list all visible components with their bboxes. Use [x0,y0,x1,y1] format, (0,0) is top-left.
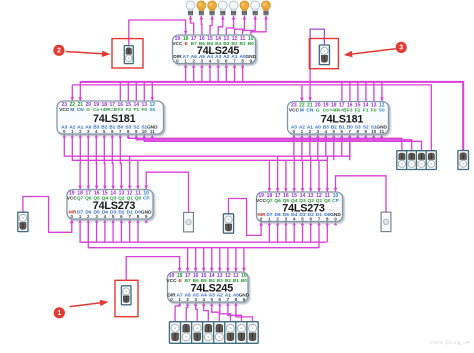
arrow into right181 bottom pin 9 [364,134,367,137]
lamp L4 (off) [218,1,227,15]
wire SW_L to left273 -MR [23,197,74,233]
svg-text:1: 1 [57,310,61,317]
wire left181 pin to left273 Q6 [87,134,91,189]
svg-text:VCC: VCC [172,41,183,47]
button CLK1 (left273 clock) [184,212,194,232]
arrow into left181 bottom pin 5 [103,134,106,137]
arrow into right273 bottom pin 1 [268,222,272,225]
wire right273 Q4 riser [292,156,296,192]
wire mid bus line A [64,134,350,156]
svg-text:11: 11 [379,129,384,134]
wire bus2 drop to left181 M pin22 [71,85,75,101]
wire SW3 loop lower to CN of right 181 [308,69,312,101]
svg-text:Q6: Q6 [85,195,92,201]
wire left181 pin to left273 Q3 [111,134,115,189]
wire bus to bottom245 B1 [234,248,238,272]
arrow into bottom245 A1 [226,303,230,306]
switch data D2 (down) [225,322,236,344]
arrow into bottom245 A7 [178,303,182,306]
wire right181 bottom pin 6 to mid bus [341,134,343,156]
svg-text:VCC: VCC [256,198,267,204]
wire right273 D pin 4 dropper [302,222,304,242]
arrow into right273 bottom pin 5 [301,222,305,225]
arrow into left273 bottom pin 3 [95,219,98,222]
wire bus to bottom245 B4 [210,248,214,272]
wire bus to right181 pin at 374 [373,81,375,101]
wire SW3 loop upper [310,29,324,69]
arrow into right273 bottom pin 0 [259,222,262,225]
wire right273 D pin 1 dropper [277,222,279,242]
arrow into right181 bottom pin 10 [372,134,375,137]
wire right273 D pin 2 dropper [285,222,287,242]
arrow into right181 bottom pin 7 [348,134,352,137]
svg-text:F0: F0 [371,107,377,113]
annotation red box 2 [112,39,143,68]
arrow into left181 bottom pin 10 [143,134,146,137]
wire bus1 drop to left181 CN pin21 [79,81,83,100]
switch bank S4 (up) [426,151,436,170]
arrow into left273 bottom pin 6 [120,219,123,222]
svg-text:Q6: Q6 [274,198,281,204]
arrow into left273 bottom pin 8 [136,219,140,222]
svg-text:M: M [70,107,74,113]
arrow into left273 bottom pin 4 [103,219,106,222]
wire right273 Q5 riser [284,160,288,192]
annotation arrow 3 [344,49,396,57]
wire bottom245 A0 to switch 8 [236,302,253,321]
wire bus to left181 pin at 144 [143,81,145,101]
arrow into bottom245 A6 [186,303,189,306]
wire A5 of top245 to bus [200,64,204,82]
wire bus1 drop to right181 S0 pin12 [380,81,384,101]
wire left181 pin to left273 Q2 [120,134,124,189]
svg-text:CSDN @Long_UP: CSDN @Long_UP [429,340,470,346]
wire A3 of top245 to bus [216,64,220,82]
arrow into left181 bottom pin 3 [87,134,90,137]
wire right181 S3 tap [357,134,359,138]
IC U5 74LS273 (right) [256,192,342,222]
wire lamp3 lead [218,16,224,36]
wire left273 D pin 0 dropper [87,219,89,242]
wire bus to right181 pin at 358 [357,81,359,101]
wire SW_M2 to right273 -MR [229,199,263,236]
svg-text:CP: CP [332,198,339,204]
wire right181 bottom pin 2 to mid bus [309,134,311,156]
switch bank S3 (up) [416,151,426,170]
wire left181 pin to left273 Q5 [95,134,99,189]
wire right273 Q2 riser [309,156,313,192]
switch SW3 (carry-in, down) [319,45,329,65]
wire bus to left181 pin at 136 [135,81,137,101]
IC U3 74LS181 (right) [288,102,389,135]
wire lamp0 lead [189,16,194,36]
arrow into right273 bottom pin 6 [309,222,312,225]
wire left273 Q0 riser [136,160,140,189]
wire right273 Q0 riser [326,156,330,192]
wire right181 bottom pin 1 to mid bus [301,134,303,160]
lamp L5 (off) [229,1,238,15]
wire left273 Q1 riser [128,156,132,189]
wire lamp7 lead [251,16,268,36]
svg-text:F0: F0 [141,107,147,113]
svg-text:Q0: Q0 [135,195,142,201]
svg-text:-E: -E [183,41,189,47]
arrow into left181 bottom pin 6 [111,134,114,137]
annotation red box 3 [309,39,338,69]
wire bottom245 A2 to switch 6 [220,302,231,321]
wire bottom245 A7 to switch 1 [175,302,180,321]
arrow into left181 bottom pin 1 [71,134,74,137]
lamp L6 (on) [240,1,249,15]
wire A0 of top245 to bus [241,64,245,82]
wire SW2 to -E of U_top245 [129,20,188,46]
svg-text:B0: B0 [248,41,254,47]
wire bus to bottom245 B3 [218,248,222,272]
wire right273 Q7 riser [268,160,272,192]
wire bus to bottom245 B5 [202,248,206,272]
IC U1 74LS245 (top) [172,35,256,64]
wire bottom245 A4 to switch 4 [204,302,209,321]
wire lamp5 lead [235,16,247,36]
svg-text:10: 10 [371,129,377,134]
switch data D1 (down) [236,322,247,344]
svg-text:CP: CP [143,195,150,201]
arrow into right273 bottom pin 7 [317,222,320,225]
wire bus to bottom245 B0 [242,248,246,272]
switch data D0 (down) [247,322,258,344]
wire right181 bottom pin 4 to mid bus [325,134,327,156]
svg-text:CN: CN [77,107,84,113]
wire bottom245 A6 to switch 2 [186,302,187,321]
svg-text:F2: F2 [125,107,131,113]
wire left181 pin to left273 Q4 [103,134,107,189]
wire bus1 drop to left181 S0 pin12 [151,81,155,100]
IC U4 74LS273 (left) [67,190,153,220]
arrow into bottom245 A0 [234,303,237,306]
switch S5 mode (up) [458,151,469,170]
svg-text:74LS181: 74LS181 [321,113,364,125]
wire lamp2 lead [210,16,214,36]
wire left273 D pin 5 dropper [129,219,131,242]
wire left273 D pin 6 dropper [137,219,139,242]
svg-text:2: 2 [57,48,61,55]
arrow into right273 bottom pin 9 [334,222,338,225]
svg-text:VCC: VCC [289,107,300,113]
annotation arrow 2 [66,51,111,57]
wire bottom245 A1 to switch 7 [228,302,242,321]
arrow into left181 bottom pin 2 [79,134,82,137]
annotation red box 1 [115,280,138,316]
wire left273 D pin 3 dropper [112,219,114,242]
arrow into right181 bottom pin 3 [316,134,320,137]
svg-text:G: G [86,107,90,113]
svg-text:11: 11 [150,129,155,134]
arrow into left273 bottom pin 1 [78,219,82,222]
wire right button to right273 CP [334,176,386,212]
wire mid bus line B [72,134,327,160]
switch data D7 (down) [169,322,180,344]
arrow into bottom245 A3 [210,303,214,306]
switch SW1 (enable bottom, down) [121,286,131,305]
svg-text:CN: CN [306,107,313,113]
wire right181 bottom pin 7 to mid bus [349,134,351,160]
svg-text:VCC: VCC [166,278,177,284]
wire A6 of top245 to bus [192,64,196,82]
lamp L2 (on) [197,1,206,15]
arrow into left273 bottom pin 2 [87,219,91,222]
wire bus line 1 [80,82,463,151]
wire right273 Q3 riser [301,160,305,192]
switch data D6 (up) [181,322,192,344]
wire bottom bus line 1 [80,219,326,242]
switch SW2 (enable top, up) [124,46,133,64]
svg-text:Q7: Q7 [77,195,84,201]
arrow into right273 bottom pin 3 [284,222,287,225]
arrow into left181 bottom pin 0 [63,134,66,137]
arrow into right181 bottom pin 8 [356,134,360,137]
wire right273 Q6 riser [276,156,280,192]
wire left button to left273 CP [144,172,188,213]
wire bus to right181 pin at 342 [341,81,343,101]
wire A1 of top245 to bus [233,64,237,82]
wire S2 line [136,134,411,151]
svg-text:B1: B1 [233,278,239,284]
arrow into bottom245 A2 [218,303,221,306]
wire right273 D pin 5 dropper [310,222,312,242]
wire bus to bottom245 B7 [186,248,190,272]
arrow into bottom245 A4 [202,303,205,306]
svg-text:F3: F3 [117,107,123,113]
annotation circle 3 [396,42,407,53]
svg-text:B1: B1 [240,41,246,47]
wire right273 Q1 riser [317,160,321,192]
svg-text:Q7: Q7 [266,198,273,204]
wire lamp6 lead [243,16,257,36]
wire right181 bottom pin 5 to mid bus [333,134,335,160]
wire A7 of top245 to bus [184,64,188,82]
lamp L3 (on) [208,1,217,15]
svg-text:10: 10 [142,129,148,134]
wire left273 D pin 1 dropper [96,219,98,242]
wire right181 S2 tap [365,134,367,140]
switch data D4 (up) [203,322,214,344]
lamp L8 (on) [262,1,271,15]
arrow into right273 bottom pin 2 [276,222,280,225]
wire left181 pin to left273 Q7 [78,134,82,189]
wire bottom bus line 2 [88,219,319,247]
arrow into right181 bottom pin 2 [308,134,312,137]
wire lamp4 lead [226,16,235,36]
lamp L7 (off) [251,1,260,15]
svg-text:F1: F1 [363,107,369,113]
annotation circle 2 [53,45,64,56]
svg-text:S0: S0 [149,107,155,113]
svg-text:B0: B0 [241,278,247,284]
switch bank S1 (up) [397,151,407,170]
wire bus to bottom245 B6 [194,248,198,272]
svg-text:Co: Co [93,107,99,113]
svg-text:F1: F1 [133,107,139,113]
wire lamp1 lead [200,16,204,36]
wire bus2 drop to right181 M pin22 [300,85,304,101]
arrow into left273 bottom pin 0 [70,219,73,222]
arrow into right181 bottom pin 5 [332,134,335,137]
wire bus to right181 pin at 366 [365,81,367,101]
switch SW_L (left273 reset, down) [18,212,28,231]
arrow into right273 bottom pin 4 [293,222,296,225]
svg-text:M: M [300,107,304,113]
IC U6 74LS245 (bottom) [166,272,249,302]
arrow into left181 bottom pin 9 [135,134,138,137]
wire bus to left181 pin at 128 [127,81,129,101]
wire right181 bottom pin 3 to mid bus [317,134,319,160]
wire SW1 to -E of bottom245 [126,257,181,281]
arrow into right181 bottom pin 0 [292,134,295,137]
wire S1 line [144,134,421,151]
wire A2 of top245 to bus [225,64,229,82]
lamp L1 (off) [186,1,195,15]
wire bus to left181 pin at 120 [119,81,121,101]
arrow into right181 bottom pin 11 [380,134,383,137]
wire right273 D pin 3 dropper [293,222,295,242]
wire bus to bottom245 B2 [226,248,230,272]
wire right273 D pin 0 dropper [268,222,270,242]
arrow into left273 bottom pin 7 [128,219,131,222]
wire right181 bottom pin 0 to mid bus [293,134,295,156]
switch bank S2 (up) [407,151,417,170]
arrow into left181 bottom pin 4 [95,134,98,137]
wire right273 D pin 6 dropper [318,222,320,248]
wire bottom245 A5 to switch 3 [196,302,198,321]
arrow into left181 bottom pin 7 [119,134,122,137]
arrow into left181 bottom pin 8 [127,134,130,137]
wire left273 D pin 4 dropper [120,219,122,242]
svg-text:3: 3 [399,45,403,52]
svg-text:G: G [316,107,320,113]
switch data D3 (up) [214,322,225,344]
wire S3 line [128,134,402,151]
wire left273 D pin 2 dropper [104,219,106,242]
annotation arrow 1 [70,300,109,307]
wire right181 S1 tap [373,134,375,141]
svg-text:VCC: VCC [67,195,78,201]
IC U2 74LS181 (left) [57,101,164,134]
svg-text:-E: -E [177,278,183,284]
arrow into right181 bottom pin 6 [340,134,343,137]
svg-text:74LS181: 74LS181 [93,113,136,125]
wire bus line 2 [72,85,431,151]
svg-text:A=B: A=B [107,107,117,113]
wire bottom245 A3 to switch 5 [212,302,220,321]
wire A4 of top245 to bus [208,64,212,82]
arrow into right273 bottom pin 8 [326,222,330,225]
button CLK2 (right273 clock) [381,212,391,232]
arrow into left273 bottom pin 9 [145,219,149,222]
svg-text:Q0: Q0 [324,198,331,204]
annotation circle 1 [54,307,65,318]
arrow into right181 bottom pin 4 [324,134,327,137]
svg-text:S0: S0 [379,107,385,113]
arrow into bottom245 A5 [194,303,198,306]
svg-text:VCC: VCC [59,107,70,113]
wire right273 D pin 7 dropper [326,222,328,242]
arrow into left181 bottom pin 11 [151,134,154,137]
wire bus to right181 pin at 350 [349,81,351,101]
arrow into right181 bottom pin 1 [300,134,303,137]
arrow into left273 bottom pin 5 [111,219,115,222]
switch SW_M2 (right273 reset, down) [223,214,233,233]
switch data D5 (down) [192,322,203,344]
